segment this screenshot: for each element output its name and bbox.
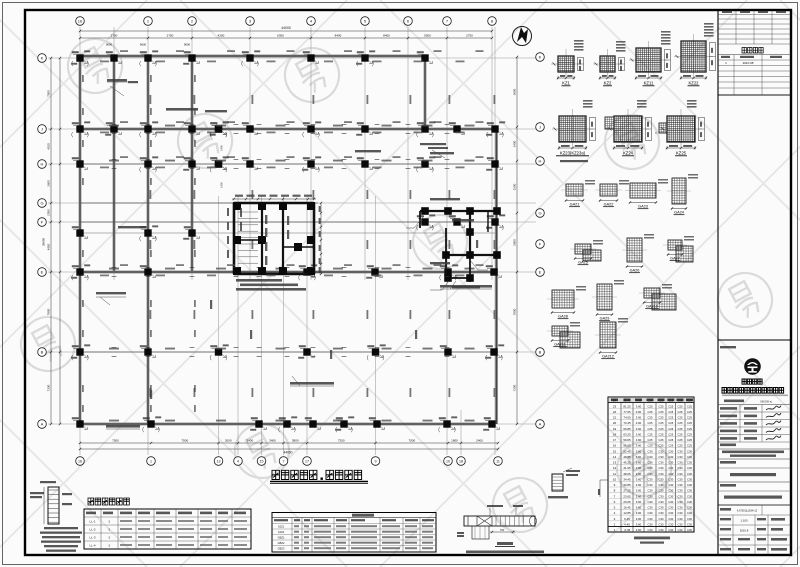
svg-text:KZ22: KZ22 xyxy=(688,81,699,86)
svg-text:C30: C30 xyxy=(678,528,683,532)
wall section ladder detail xyxy=(48,487,59,524)
svg-text:C30: C30 xyxy=(687,483,692,487)
svg-text:C25: C25 xyxy=(668,444,673,448)
svg-text:C30: C30 xyxy=(678,517,683,521)
column section detail KZ23(KZ23a) xyxy=(552,100,596,156)
column section detail KZ24 xyxy=(605,100,652,156)
svg-text:3.60: 3.60 xyxy=(636,438,642,442)
svg-text:3400: 3400 xyxy=(246,438,253,442)
svg-text:GJZ2: GJZ2 xyxy=(278,530,285,534)
bottom segment dimensions xyxy=(80,442,498,444)
svg-text:LL-2: LL-2 xyxy=(89,528,95,532)
svg-text:KZ1: KZ1 xyxy=(562,81,570,86)
svg-text:GBZ2: GBZ2 xyxy=(278,541,285,545)
svg-text:C25: C25 xyxy=(648,410,653,414)
svg-text:C25: C25 xyxy=(687,421,692,425)
svg-text:63.25: 63.25 xyxy=(623,433,631,437)
core 1 notes below xyxy=(236,279,282,282)
svg-text:3.60: 3.60 xyxy=(636,523,642,527)
column section detail KZ2 xyxy=(593,41,626,86)
svg-text:66.85: 66.85 xyxy=(623,427,631,431)
svg-text:4100: 4100 xyxy=(46,143,50,150)
column hook annotations xyxy=(72,55,504,433)
svg-text:GA26: GA26 xyxy=(630,269,640,273)
vertical axis grid lines xyxy=(80,27,495,455)
top segment dimensions xyxy=(80,37,492,39)
svg-text:C30: C30 xyxy=(687,461,692,465)
column schedule table xyxy=(608,397,694,532)
svg-text:77.65: 77.65 xyxy=(623,410,631,414)
svg-text:C30: C30 xyxy=(668,489,673,493)
wall pier detail GA212 xyxy=(595,318,628,359)
svg-text:3.60: 3.60 xyxy=(636,483,642,487)
svg-text:C30: C30 xyxy=(648,517,653,521)
wall pier detail GA26 xyxy=(622,234,654,273)
svg-text:4.45: 4.45 xyxy=(624,523,630,527)
svg-text:16: 16 xyxy=(78,19,83,24)
svg-text:2400: 2400 xyxy=(476,438,483,442)
svg-text:GBZ3: GBZ3 xyxy=(278,547,285,551)
svg-text:C30: C30 xyxy=(648,455,653,459)
svg-text:30.85: 30.85 xyxy=(623,483,631,487)
wall pier detail GA24 xyxy=(667,174,698,215)
svg-text:44000: 44000 xyxy=(281,26,291,30)
svg-text:C30: C30 xyxy=(648,500,653,504)
svg-text:C25: C25 xyxy=(648,421,653,425)
svg-text:45.25: 45.25 xyxy=(623,461,631,465)
svg-text:2750: 2750 xyxy=(111,33,118,37)
svg-text:C25: C25 xyxy=(678,410,683,414)
svg-text:7200: 7200 xyxy=(338,438,345,442)
svg-text:K: K xyxy=(41,56,44,61)
svg-text:C25: C25 xyxy=(687,404,692,408)
svg-text:C30: C30 xyxy=(678,489,683,493)
svg-text:41.65: 41.65 xyxy=(623,466,631,470)
svg-text:-2: -2 xyxy=(108,536,111,540)
svg-text:G: G xyxy=(40,201,43,206)
svg-text:23.65: 23.65 xyxy=(623,494,631,498)
svg-text:19: 19 xyxy=(613,427,617,431)
svg-text:8400: 8400 xyxy=(335,33,342,37)
svg-text:KZ11: KZ11 xyxy=(644,81,654,86)
svg-text:C30: C30 xyxy=(678,494,683,498)
column section detail KZ22 xyxy=(674,23,716,86)
svg-text:C30: C30 xyxy=(668,523,673,527)
svg-text:2010.08: 2010.08 xyxy=(743,61,754,65)
core 2 leader lines xyxy=(406,216,488,290)
svg-text:A.07001(L)S34+12: A.07001(L)S34+12 xyxy=(737,510,758,513)
svg-text:14: 14 xyxy=(613,455,617,459)
svg-text:3.60: 3.60 xyxy=(636,489,642,493)
svg-text:GA21: GA21 xyxy=(570,203,580,207)
core 1 corner columns xyxy=(233,202,315,275)
wall pier detail GA22 xyxy=(595,180,629,207)
svg-text:15: 15 xyxy=(260,460,264,464)
signature rows xyxy=(718,411,791,413)
core 1 right dim chain xyxy=(320,203,322,274)
svg-text:C30: C30 xyxy=(648,472,653,476)
svg-text:C25: C25 xyxy=(659,433,664,437)
svg-text:48.85: 48.85 xyxy=(623,455,631,459)
svg-text:GA25: GA25 xyxy=(578,261,588,265)
core 2 columns xyxy=(421,207,501,282)
svg-text:700: 700 xyxy=(500,528,505,532)
svg-text:C30: C30 xyxy=(659,494,664,498)
svg-text:C25: C25 xyxy=(648,416,653,420)
svg-text:1:100: 1:100 xyxy=(741,519,748,523)
general note line xyxy=(466,551,544,554)
svg-text:15: 15 xyxy=(613,449,617,453)
svg-text:3.60: 3.60 xyxy=(636,421,642,425)
wall pier detail GA27 xyxy=(663,236,694,262)
svg-text:23: 23 xyxy=(613,404,617,408)
svg-text:7500: 7500 xyxy=(46,90,50,97)
svg-text:C25: C25 xyxy=(668,433,673,437)
svg-text:GA27: GA27 xyxy=(670,257,680,261)
core 1 stair treads xyxy=(238,212,258,263)
svg-text:C25: C25 xyxy=(687,438,692,442)
svg-text:C25: C25 xyxy=(648,433,653,437)
svg-text:C30: C30 xyxy=(678,478,683,482)
svg-text:C30: C30 xyxy=(648,478,653,482)
svg-text:GA212: GA212 xyxy=(602,355,614,359)
column section detail KZ1 xyxy=(551,40,584,86)
upper annotation cluster near axis 5 xyxy=(420,143,446,145)
sheet name section xyxy=(720,484,736,487)
svg-text:3.60: 3.60 xyxy=(636,410,642,414)
shear wall link beam table title xyxy=(88,498,129,505)
svg-text:9.25: 9.25 xyxy=(624,517,630,521)
svg-text:7800: 7800 xyxy=(512,308,516,315)
wall leg schedule table (bottom centre) xyxy=(272,513,436,553)
strip detail caption xyxy=(497,542,513,545)
svg-text:C30: C30 xyxy=(648,461,653,465)
svg-text:GJZ1: GJZ1 xyxy=(278,525,285,529)
svg-text:C30: C30 xyxy=(687,466,692,470)
svg-text:C25: C25 xyxy=(648,427,653,431)
mid-span beam labels xyxy=(109,95,495,422)
svg-text:C30: C30 xyxy=(659,489,664,493)
wall pier detail GA211 xyxy=(547,322,580,348)
svg-text:-0.05: -0.05 xyxy=(624,528,631,532)
svg-text:C30: C30 xyxy=(668,517,673,521)
svg-text:C25: C25 xyxy=(678,404,683,408)
svg-text:1400: 1400 xyxy=(220,145,224,151)
bottom overall dimension 44000 xyxy=(80,448,498,450)
svg-text:C30: C30 xyxy=(668,449,673,453)
svg-text:2750: 2750 xyxy=(167,33,174,37)
svg-text:K: K xyxy=(539,55,542,60)
svg-text:3.60: 3.60 xyxy=(636,506,642,510)
svg-text:C30: C30 xyxy=(659,455,664,459)
svg-text:C30: C30 xyxy=(678,523,683,527)
core 1 dimension string above xyxy=(232,198,316,200)
svg-text:17: 17 xyxy=(305,460,309,464)
svg-text:27.25: 27.25 xyxy=(623,489,631,493)
shear wall link beam table xyxy=(84,509,251,549)
svg-text:G: G xyxy=(538,211,541,216)
svg-text:C30: C30 xyxy=(668,528,673,532)
svg-text:20: 20 xyxy=(613,421,617,425)
svg-text:-2: -2 xyxy=(108,528,111,532)
company chinese name CRCC xyxy=(742,379,762,384)
svg-text:C30: C30 xyxy=(659,528,664,532)
svg-text:C25: C25 xyxy=(668,438,673,442)
core 2 labels xyxy=(430,198,460,200)
svg-text:C25: C25 xyxy=(668,399,673,403)
strip detail annotation flags xyxy=(487,505,503,507)
svg-text:J: J xyxy=(41,127,43,132)
svg-text:C30: C30 xyxy=(659,517,664,521)
svg-text:C25: C25 xyxy=(668,404,673,408)
svg-text:H: H xyxy=(41,162,44,167)
svg-text:22: 22 xyxy=(613,410,617,414)
svg-text:C25: C25 xyxy=(659,438,664,442)
svg-text:8400: 8400 xyxy=(383,33,390,37)
svg-text:C30: C30 xyxy=(687,500,692,504)
svg-text:3.60: 3.60 xyxy=(636,444,642,448)
svg-text:20.05: 20.05 xyxy=(623,500,631,504)
svg-text:C25: C25 xyxy=(648,399,653,403)
svg-text:C30: C30 xyxy=(678,483,683,487)
svg-text:GA210: GA210 xyxy=(646,305,658,309)
svg-text:C30: C30 xyxy=(668,478,673,482)
svg-text:10: 10 xyxy=(613,478,617,482)
svg-text:2010.8: 2010.8 xyxy=(740,529,749,533)
svg-text:10: 10 xyxy=(446,460,450,464)
left dimension chain xyxy=(50,58,52,424)
svg-text:2050: 2050 xyxy=(46,209,50,216)
svg-text:C30: C30 xyxy=(687,517,692,521)
title strip divider xyxy=(717,10,719,555)
column section detail KZ25 xyxy=(656,100,705,156)
svg-text:4200: 4200 xyxy=(218,33,225,37)
svg-text:A: A xyxy=(539,422,542,427)
core 1 left rotated labels xyxy=(227,208,229,258)
reinforced concrete columns (filled) xyxy=(76,54,498,427)
svg-text:C30: C30 xyxy=(668,511,673,515)
svg-text:6300: 6300 xyxy=(277,33,284,37)
company full name xyxy=(722,388,784,394)
svg-text:3.60: 3.60 xyxy=(636,404,642,408)
svg-text:7: 7 xyxy=(283,460,285,464)
svg-text:3.60: 3.60 xyxy=(636,466,642,470)
svg-text:C30: C30 xyxy=(687,506,692,510)
svg-text:C30: C30 xyxy=(659,523,664,527)
svg-text:KZ23(KZ23a): KZ23(KZ23a) xyxy=(560,151,586,156)
svg-text:C25: C25 xyxy=(668,427,673,431)
svg-text:17: 17 xyxy=(613,438,617,442)
strip detail dropped box xyxy=(472,526,489,539)
svg-text:C25: C25 xyxy=(687,399,692,403)
svg-text:7200: 7200 xyxy=(512,384,516,391)
svg-text:C30: C30 xyxy=(668,472,673,476)
svg-text:C30: C30 xyxy=(678,472,683,476)
svg-text:C25: C25 xyxy=(668,410,673,414)
annotation leader lines xyxy=(96,82,492,429)
svg-text:16: 16 xyxy=(78,460,82,464)
svg-text:B: B xyxy=(539,350,542,355)
svg-text:C30: C30 xyxy=(678,455,683,459)
strip detail rotated side label xyxy=(457,532,464,534)
svg-text:C30: C30 xyxy=(659,511,664,515)
svg-text:3.60: 3.60 xyxy=(636,399,642,403)
svg-text:13: 13 xyxy=(613,461,617,465)
svg-text:C25: C25 xyxy=(678,399,683,403)
svg-text:3600: 3600 xyxy=(46,180,50,187)
svg-text:7500: 7500 xyxy=(408,438,415,442)
svg-text:-2: -2 xyxy=(108,520,111,524)
revision table (top of title strip) xyxy=(718,10,791,95)
svg-text:LL-4: LL-4 xyxy=(89,544,95,548)
small pier detail B xyxy=(552,474,563,491)
svg-text:3.60: 3.60 xyxy=(636,449,642,453)
svg-text:C30: C30 xyxy=(659,478,664,482)
core 1 shear wall block xyxy=(234,203,314,274)
svg-text:3.60: 3.60 xyxy=(636,478,642,482)
svg-text:C25: C25 xyxy=(659,421,664,425)
svg-text:C25: C25 xyxy=(659,444,664,448)
svg-text:C30: C30 xyxy=(668,494,673,498)
qualification number row xyxy=(724,400,744,403)
svg-text:3.60: 3.60 xyxy=(636,461,642,465)
svg-text:C30: C30 xyxy=(659,449,664,453)
svg-text:E: E xyxy=(41,270,44,275)
svg-text:C30: C30 xyxy=(648,449,653,453)
svg-text:3.60: 3.60 xyxy=(636,416,642,420)
svg-text:12.85: 12.85 xyxy=(623,511,631,515)
wall pier detail GA21 xyxy=(561,180,595,207)
svg-text:GA24: GA24 xyxy=(674,211,684,215)
svg-text:C25: C25 xyxy=(648,444,653,448)
svg-text:C25: C25 xyxy=(668,416,673,420)
svg-text:3.60: 3.60 xyxy=(636,500,642,504)
svg-text:C30: C30 xyxy=(678,449,683,453)
svg-text:C30: C30 xyxy=(659,472,664,476)
perimeter and interior walls xyxy=(80,55,425,58)
svg-text:5500: 5500 xyxy=(424,33,431,37)
svg-text:C25: C25 xyxy=(648,438,653,442)
svg-text:C30: C30 xyxy=(668,455,673,459)
svg-text:C25: C25 xyxy=(678,438,683,442)
svg-text:GA29: GA29 xyxy=(600,317,610,321)
svg-text:-2: -2 xyxy=(108,544,111,548)
svg-text:4: 4 xyxy=(237,460,239,464)
svg-text:GBZ1: GBZ1 xyxy=(278,536,285,540)
svg-text:C30: C30 xyxy=(659,506,664,510)
svg-text:16.45: 16.45 xyxy=(623,506,631,510)
svg-text:13: 13 xyxy=(217,460,221,464)
svg-text:C30: C30 xyxy=(659,483,664,487)
svg-text:H: H xyxy=(539,159,542,164)
label note under KZ23 xyxy=(560,160,588,162)
svg-text:24: 24 xyxy=(613,399,617,403)
svg-text:C25: C25 xyxy=(687,416,692,420)
svg-text:C30: C30 xyxy=(687,449,692,453)
svg-text:3.60: 3.60 xyxy=(636,494,642,498)
svg-text:C25: C25 xyxy=(659,410,664,414)
svg-text:3.60: 3.60 xyxy=(636,517,642,521)
svg-text:C25: C25 xyxy=(687,410,692,414)
svg-text:C30: C30 xyxy=(648,511,653,515)
svg-text:C25: C25 xyxy=(668,421,673,425)
svg-text:9600: 9600 xyxy=(184,43,191,47)
svg-text:3.60: 3.60 xyxy=(636,427,642,431)
wall pier detail GA28 xyxy=(547,286,586,319)
watermark yi-circle logos xyxy=(168,104,241,177)
bottom axis circles xyxy=(76,457,85,466)
svg-text:C30: C30 xyxy=(687,478,692,482)
svg-text:E: E xyxy=(539,270,542,275)
svg-text:C30: C30 xyxy=(648,489,653,493)
svg-text:81.25: 81.25 xyxy=(623,404,631,408)
svg-text:34.45: 34.45 xyxy=(623,478,631,482)
svg-text:9600: 9600 xyxy=(106,43,113,47)
svg-text:21: 21 xyxy=(613,416,617,420)
owner section xyxy=(718,448,791,450)
svg-text:18: 18 xyxy=(613,433,617,437)
svg-text:59.65: 59.65 xyxy=(623,438,631,442)
svg-text:11: 11 xyxy=(496,460,500,464)
svg-text:C25: C25 xyxy=(687,433,692,437)
wall pier detail GA25 xyxy=(570,240,603,265)
svg-text:C30: C30 xyxy=(687,523,692,527)
svg-text:5200: 5200 xyxy=(512,183,516,190)
svg-text:C30: C30 xyxy=(668,506,673,510)
right dimension chain xyxy=(516,57,518,424)
svg-text:C30: C30 xyxy=(648,528,653,532)
svg-text:GA22: GA22 xyxy=(604,203,614,207)
svg-text:6800: 6800 xyxy=(512,88,516,95)
revision table caption xyxy=(742,48,763,54)
svg-text:C25: C25 xyxy=(687,444,692,448)
svg-text:C30: C30 xyxy=(668,466,673,470)
svg-text:38.05: 38.05 xyxy=(623,472,631,476)
svg-text:C30: C30 xyxy=(648,523,653,527)
top axis circles xyxy=(76,17,85,26)
plan annotation texts xyxy=(107,79,127,82)
svg-text:C30: C30 xyxy=(668,461,673,465)
extra micro annotation clutter xyxy=(82,50,484,412)
svg-text:C25: C25 xyxy=(678,444,683,448)
svg-text:C25: C25 xyxy=(659,404,664,408)
svg-text:C30: C30 xyxy=(668,483,673,487)
svg-text:C30: C30 xyxy=(687,455,692,459)
svg-text:5800: 5800 xyxy=(512,239,516,246)
svg-text:GA211: GA211 xyxy=(554,343,566,347)
svg-text:C30: C30 xyxy=(678,461,683,465)
title block bottom grid xyxy=(718,504,791,506)
top overall dimension 44000 xyxy=(80,30,492,32)
svg-text:J: J xyxy=(539,125,541,130)
svg-text:1400: 1400 xyxy=(220,182,224,188)
core 2 shear walls xyxy=(420,211,500,282)
svg-text:LL-1: LL-1 xyxy=(89,520,95,524)
svg-text:C30: C30 xyxy=(687,489,692,493)
schedule leader bracket xyxy=(600,479,608,481)
svg-text:C30: C30 xyxy=(678,511,683,515)
wall pier detail GA23 xyxy=(625,179,668,209)
svg-text:3.60: 3.60 xyxy=(636,528,642,532)
svg-text:GA23: GA23 xyxy=(638,205,648,209)
title block outer xyxy=(718,340,791,555)
svg-text:LL-3: LL-3 xyxy=(89,536,95,540)
svg-text:2000: 2000 xyxy=(225,438,232,442)
svg-text:12: 12 xyxy=(613,466,617,470)
beam stub marks xyxy=(112,125,450,357)
svg-text:1800: 1800 xyxy=(451,438,458,442)
svg-text:4950: 4950 xyxy=(46,243,50,250)
